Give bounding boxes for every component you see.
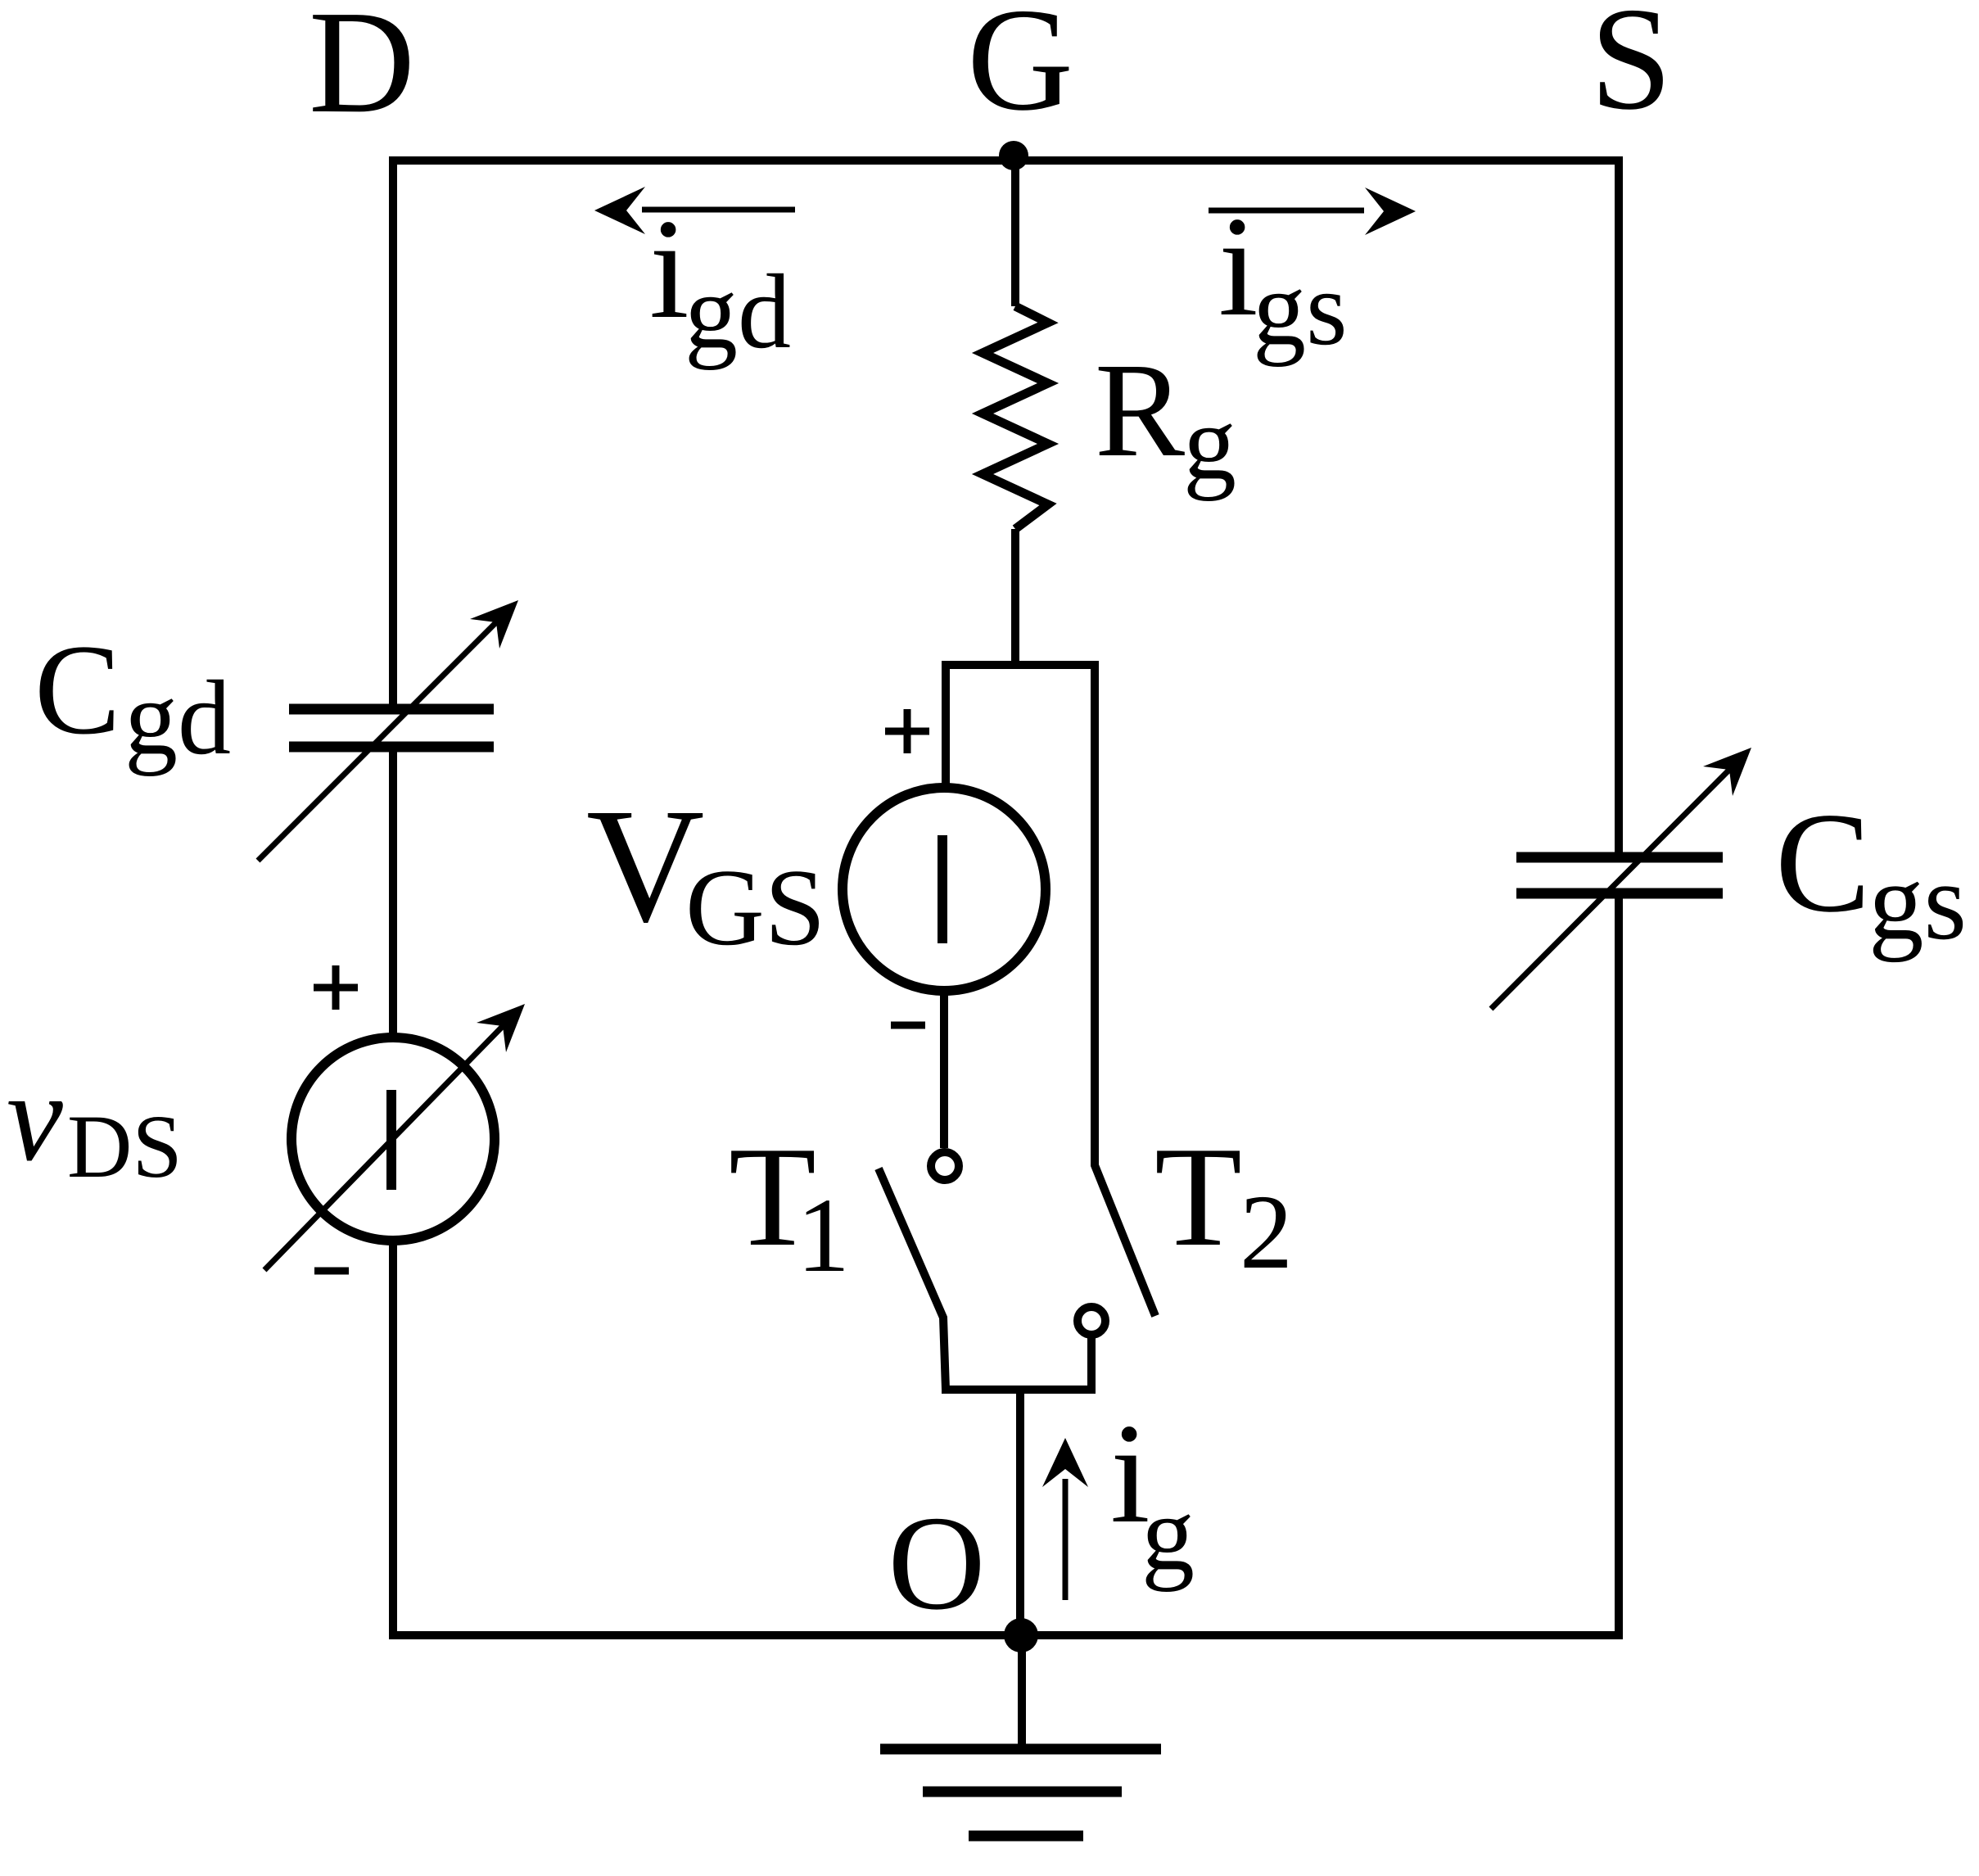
wire right bottom segment (1615, 893, 1623, 1639)
svg-text:D: D (309, 0, 415, 143)
wire right top segment (1615, 156, 1623, 857)
label Cgd (34, 618, 231, 777)
svg-text:S: S (1590, 0, 1672, 140)
wire bottom (389, 1631, 1623, 1639)
svg-text:G: G (967, 0, 1073, 141)
voltage source vDS (264, 965, 525, 1271)
svg-text:T: T (1154, 1117, 1242, 1276)
wire bottom connector (942, 1386, 1096, 1394)
svg-text:C: C (34, 618, 120, 762)
resistor Rg (983, 306, 1048, 529)
wire top D-G-S (389, 156, 1623, 165)
svg-text:gd: gd (124, 659, 231, 777)
wire resistor to connector (1011, 529, 1019, 665)
node G (999, 141, 1028, 170)
voltage source VGS (843, 709, 1046, 1025)
wire connector to node O (1016, 1390, 1024, 1635)
wire left middle segment (389, 747, 397, 1036)
switch T2 (1078, 1307, 1105, 1394)
label igd (649, 189, 791, 371)
svg-text:gs: gs (1253, 250, 1348, 368)
svg-text:1: 1 (797, 1177, 850, 1295)
label Cgs (1775, 783, 1967, 963)
wire VGS top lead (942, 661, 950, 786)
switch T1 (879, 1152, 959, 1390)
svg-text:GS: GS (685, 847, 825, 968)
label VGS (586, 775, 825, 968)
wire left bottom segment (389, 1241, 397, 1639)
wire VGS bottom lead (940, 991, 948, 1148)
label T1 (729, 1117, 850, 1295)
svg-text:g: g (1183, 384, 1236, 502)
svg-text:R: R (1095, 335, 1185, 485)
label vDS (7, 1046, 183, 1196)
wire right branch down (1095, 661, 1155, 1316)
svg-text:g: g (1141, 1475, 1195, 1593)
current arrow ig (1042, 1438, 1088, 1600)
ground (880, 1635, 1161, 1836)
label ig (1110, 1394, 1195, 1593)
svg-text:O: O (888, 1488, 985, 1638)
current arrow igd (594, 187, 795, 234)
svg-text:v: v (7, 1046, 63, 1187)
label igs (1218, 187, 1348, 368)
wire top connector (942, 661, 1099, 669)
svg-text:gd: gd (685, 253, 791, 371)
svg-text:C: C (1775, 783, 1871, 942)
label T2 (1154, 1117, 1293, 1291)
svg-text:gs: gs (1868, 841, 1967, 963)
svg-text:i: i (649, 189, 689, 348)
svg-text:2: 2 (1240, 1173, 1293, 1291)
capacitor Cgs (1491, 748, 1751, 1009)
current arrow igs (1209, 188, 1416, 235)
wire left top segment (389, 156, 397, 709)
capacitor Cgd (258, 600, 518, 861)
svg-text:DS: DS (67, 1096, 183, 1196)
node O (1004, 1618, 1038, 1652)
label Rg (1095, 335, 1236, 502)
wire G down to resistor (1011, 160, 1019, 306)
